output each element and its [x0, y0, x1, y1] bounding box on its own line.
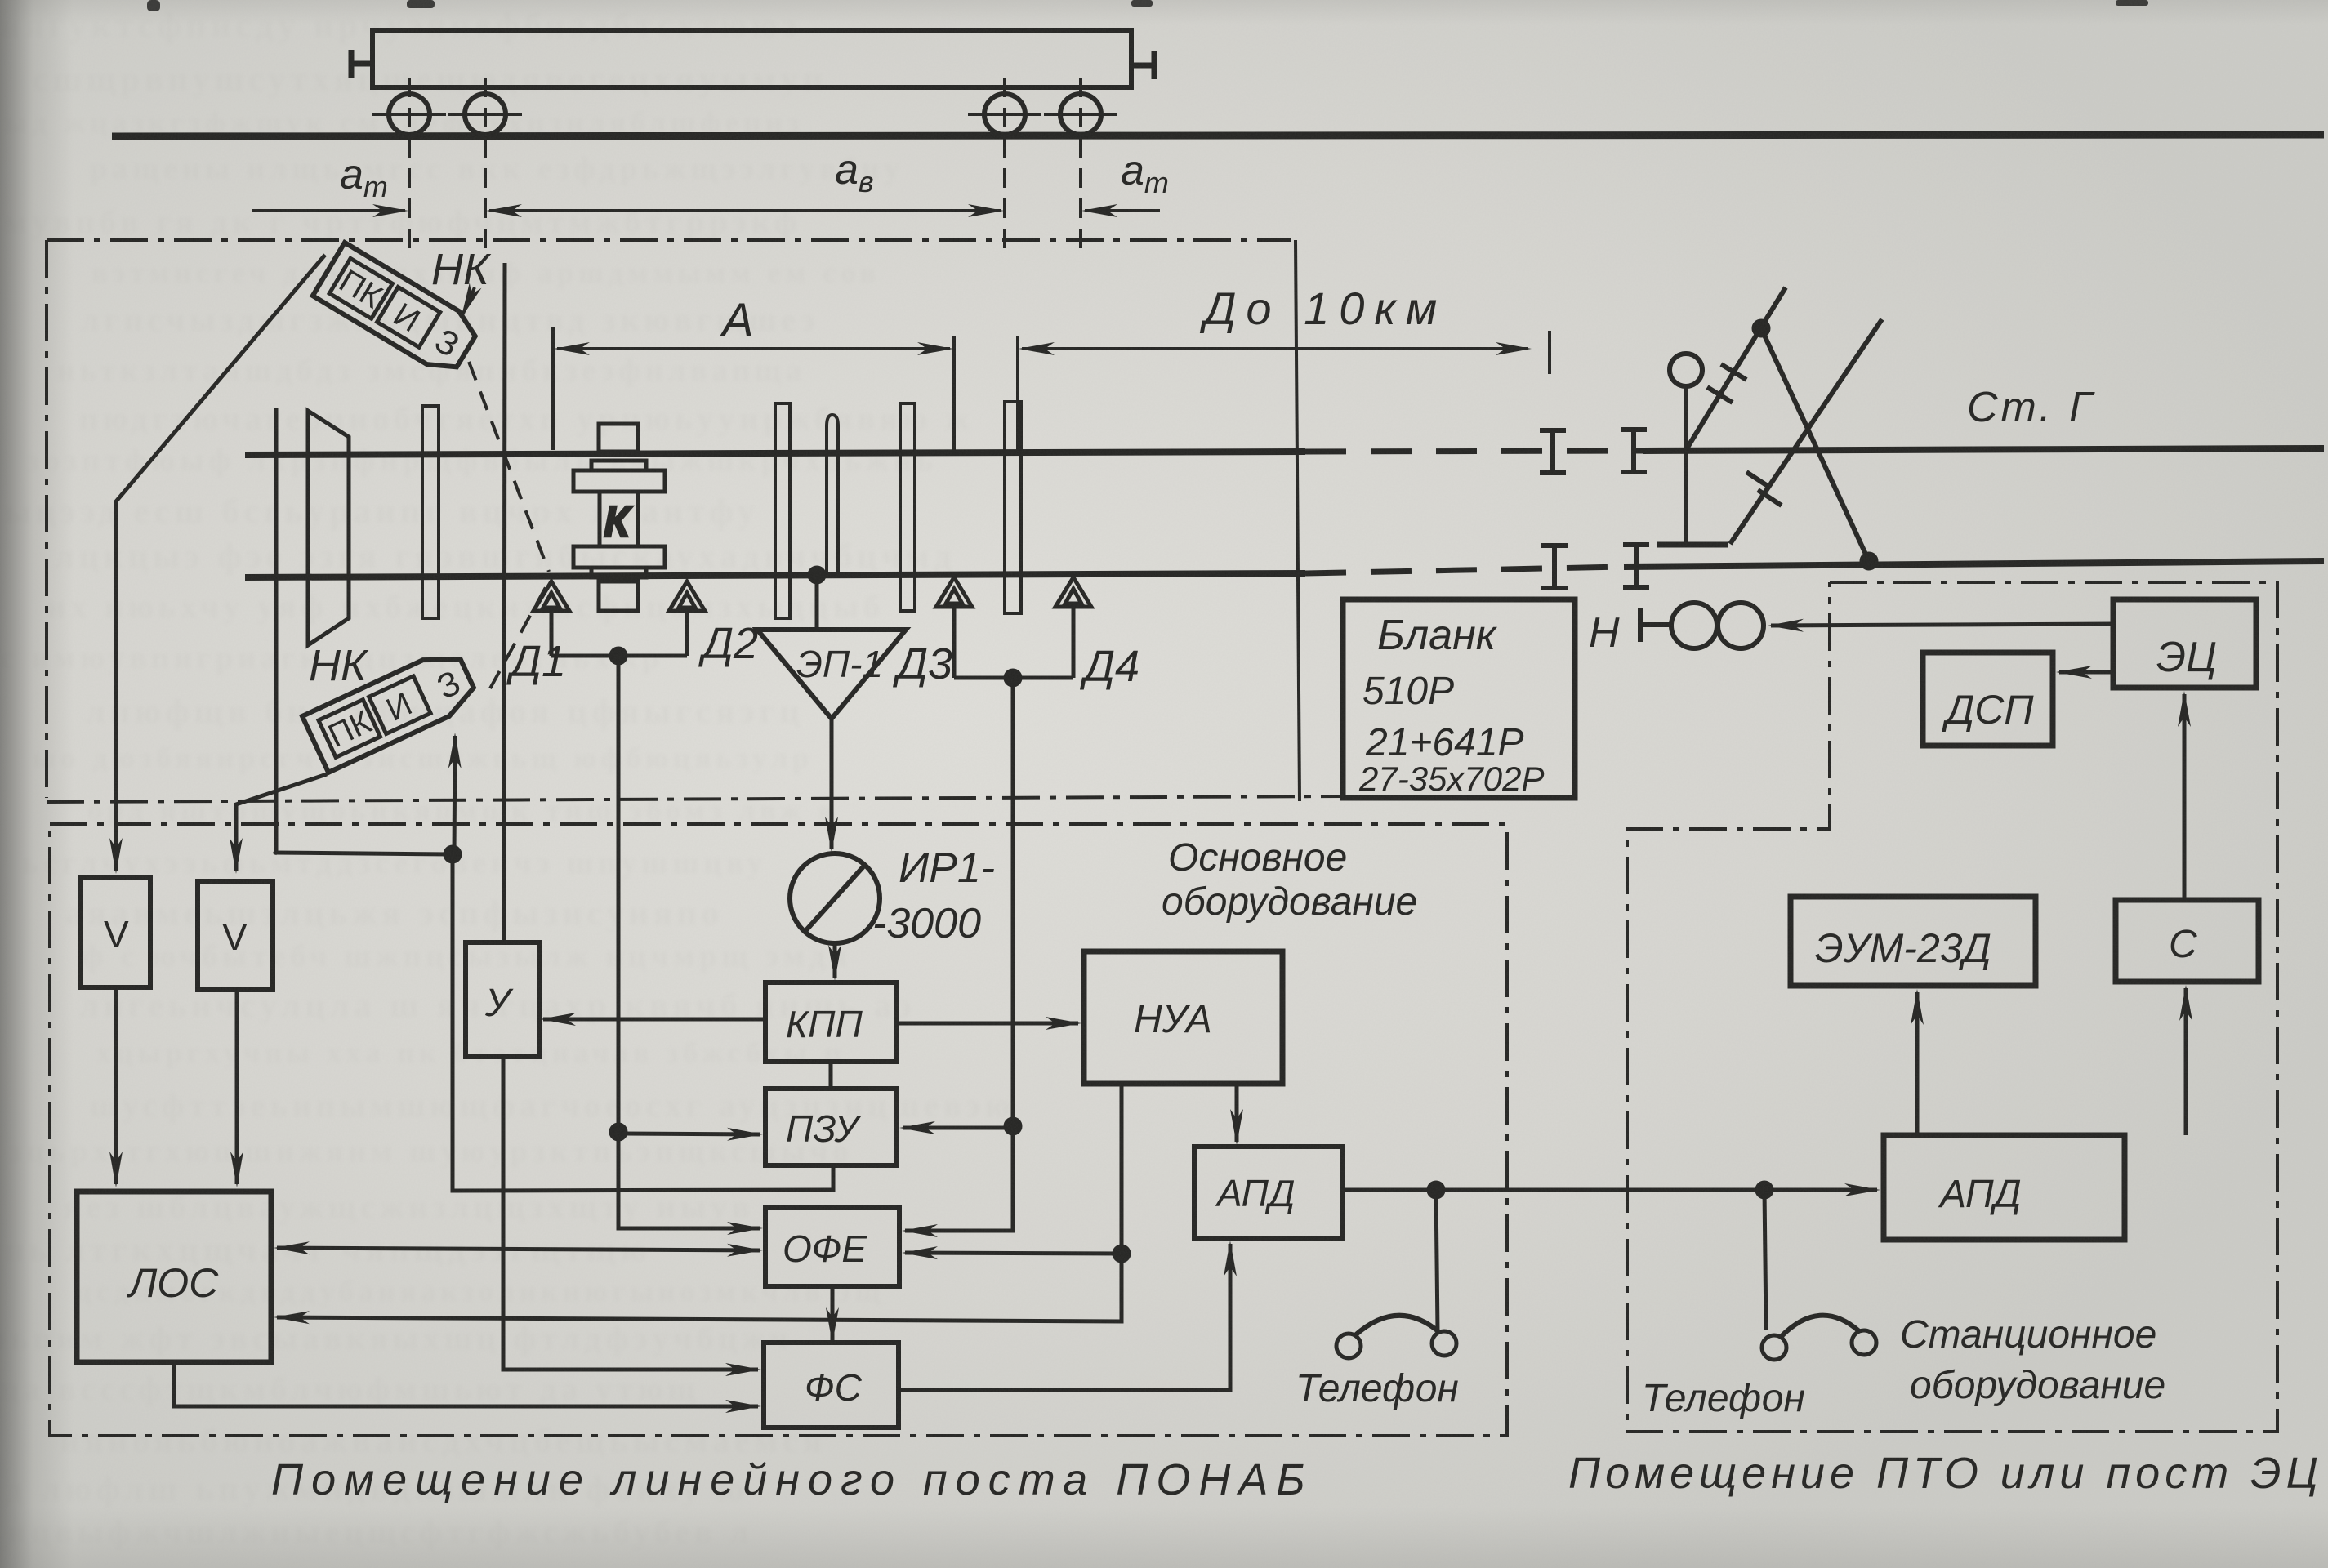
wire D3D4 column x1240: [1011, 678, 1015, 1126]
wire S to EC: [2183, 694, 2187, 900]
insulation ticks on diagonal 1: [1707, 364, 1746, 403]
phone right handset: [1762, 1335, 1786, 1360]
PONAB room dash-dot box: [50, 824, 1507, 1436]
outer field-zone dash-dot border left: [45, 240, 48, 798]
PZU box: [765, 1089, 897, 1165]
dimension a_v: [489, 209, 1001, 212]
wire x1240 to OFE right: [905, 1126, 1013, 1231]
IR to KPP arrow: [833, 943, 837, 978]
arrow into PZU left: [618, 1134, 760, 1134]
A extension line right (D3): [952, 336, 956, 450]
page top specks: [147, 0, 2148, 11]
wagon buffer right: [1131, 51, 1154, 79]
Blank box: [1343, 599, 1575, 798]
insulated joint lower rail 2: [1623, 545, 1649, 587]
wire NK line x618: [504, 263, 505, 942]
arrow into PZU right: [903, 1126, 1013, 1130]
wire KPP to NUA: [896, 1022, 1078, 1026]
wheel crosshairs: [372, 78, 1117, 249]
post 2: [775, 403, 790, 618]
wire FS to APD: [899, 1244, 1230, 1390]
insulated joint upper rail 1: [1540, 430, 1566, 473]
wire NUA bottom x1373: [1120, 1084, 1124, 1254]
wire V1 feed polyline: [116, 255, 325, 871]
dimension A line: [557, 347, 950, 350]
dash-dot zone bottom line: [47, 796, 1343, 802]
wire LOS to FS: [174, 1362, 758, 1406]
outer field-zone dash-dot border top: [47, 238, 1291, 242]
wheel 1: [389, 94, 430, 135]
EP-1 feed from rail: [809, 568, 824, 582]
wheel 2: [465, 94, 506, 135]
junction dot on lower rail: [1862, 554, 1876, 568]
wire V1 to LOS: [114, 987, 118, 1184]
D2 sensor: [669, 581, 705, 611]
extension tick right: [1548, 331, 1551, 374]
V1 box: [81, 877, 150, 987]
wire heater feed horizontal y1046: [274, 853, 453, 854]
S box: [2116, 900, 2259, 982]
wire OFE to FS arrow: [831, 1286, 835, 1340]
upper rail: [245, 452, 1305, 455]
arrow up to NK2: [454, 736, 455, 854]
dimension a_t left: [252, 209, 405, 212]
wire x1373 to LOS: [277, 1254, 1122, 1321]
DSP box: [1923, 653, 2053, 746]
wire D1D2 column x757: [617, 656, 621, 1132]
OFE box: [765, 1208, 899, 1286]
K rail contact device: [573, 424, 665, 611]
V2 box: [198, 881, 273, 990]
wire horn line x338 down: [274, 408, 276, 854]
wagon buffer left: [351, 50, 372, 78]
D4 sensor: [1055, 577, 1091, 607]
wire NUA to APD: [1235, 1084, 1239, 1142]
wire V2 feed: [236, 774, 327, 871]
station room dash-dot border: [1627, 582, 2277, 1432]
phone left drop: [1436, 1190, 1438, 1331]
NK1 label and arrow: [462, 287, 475, 315]
D3 sensor: [936, 577, 972, 607]
D3-D4 bracket: [954, 676, 1073, 680]
arrow into OFE right lower: [905, 1253, 1122, 1254]
N repeater symbol: [1640, 608, 1671, 642]
wire APD to EUM: [1915, 992, 1920, 1135]
dimension a_t right: [1085, 209, 1160, 212]
wire x554 down to PZU loop: [453, 854, 833, 1191]
wheel 3: [984, 94, 1025, 135]
NK2 dashed sight line: [490, 581, 549, 688]
EP-1 to IR arrow: [830, 719, 834, 849]
wire OFE-LOS double arrow: [277, 1248, 760, 1250]
wire APD to station APD: [1342, 1188, 1877, 1192]
wire EC to N: [1771, 624, 2113, 626]
top rail: [112, 135, 2324, 136]
insulation ticks on diagonal B: [1746, 472, 1782, 506]
wire U to FS: [503, 1057, 758, 1370]
wire KPP to U arrow: [543, 1018, 765, 1022]
wire V2 to LOS: [235, 990, 239, 1184]
EUM-23D box: [1791, 897, 2036, 986]
wire APD to S: [2184, 988, 2188, 1135]
post 3 rounded: [827, 415, 838, 577]
dimension Do10km: [1022, 347, 1528, 350]
horn window: [308, 411, 349, 645]
turnout diagonal 1: [1686, 287, 1786, 450]
U box: [466, 942, 540, 1057]
junction dot on diagonal: [1754, 321, 1768, 336]
LOS box: [77, 1192, 271, 1362]
field-zone right border vertical: [1296, 240, 1300, 801]
KPP box: [765, 982, 896, 1062]
turnout diagonal B: [1730, 319, 1882, 544]
lower rail: [245, 573, 1305, 577]
EC box: [2113, 599, 2256, 688]
wagon body: [372, 30, 1131, 87]
IR1-3000 counter: [790, 853, 880, 943]
phone right drop: [1764, 1190, 1766, 1330]
wire x757 to OFE left: [618, 1132, 760, 1228]
wire EC to DSP: [2059, 670, 2113, 675]
A extension line left: [551, 327, 555, 450]
turnout diagonal C: [1761, 328, 1869, 561]
APD right box: [1884, 1135, 2125, 1240]
NK1 dashed sight line: [469, 362, 549, 572]
FS box: [764, 1343, 899, 1428]
D1-D2 bracket: [551, 654, 687, 658]
post 5: [1005, 402, 1021, 613]
post 1: [422, 406, 439, 618]
EP-1 funnel: [757, 630, 906, 719]
insulated joint upper rail 2: [1621, 430, 1647, 472]
station signal mast: [1670, 354, 1702, 386]
phone left handset: [1336, 1334, 1361, 1358]
D1 sensor: [533, 581, 569, 611]
paper grain: [0, 0, 1, 1]
post 4: [900, 403, 915, 611]
APD left box: [1194, 1147, 1342, 1238]
insulated joint lower rail 1: [1541, 546, 1568, 588]
NK2 unit: [302, 645, 480, 773]
NUA box: [1084, 951, 1282, 1084]
wire KPP-PZU connector: [829, 1062, 833, 1089]
extension left x1246: [1016, 336, 1019, 450]
wheel 4: [1060, 94, 1101, 135]
NK1 unit: [313, 243, 482, 378]
